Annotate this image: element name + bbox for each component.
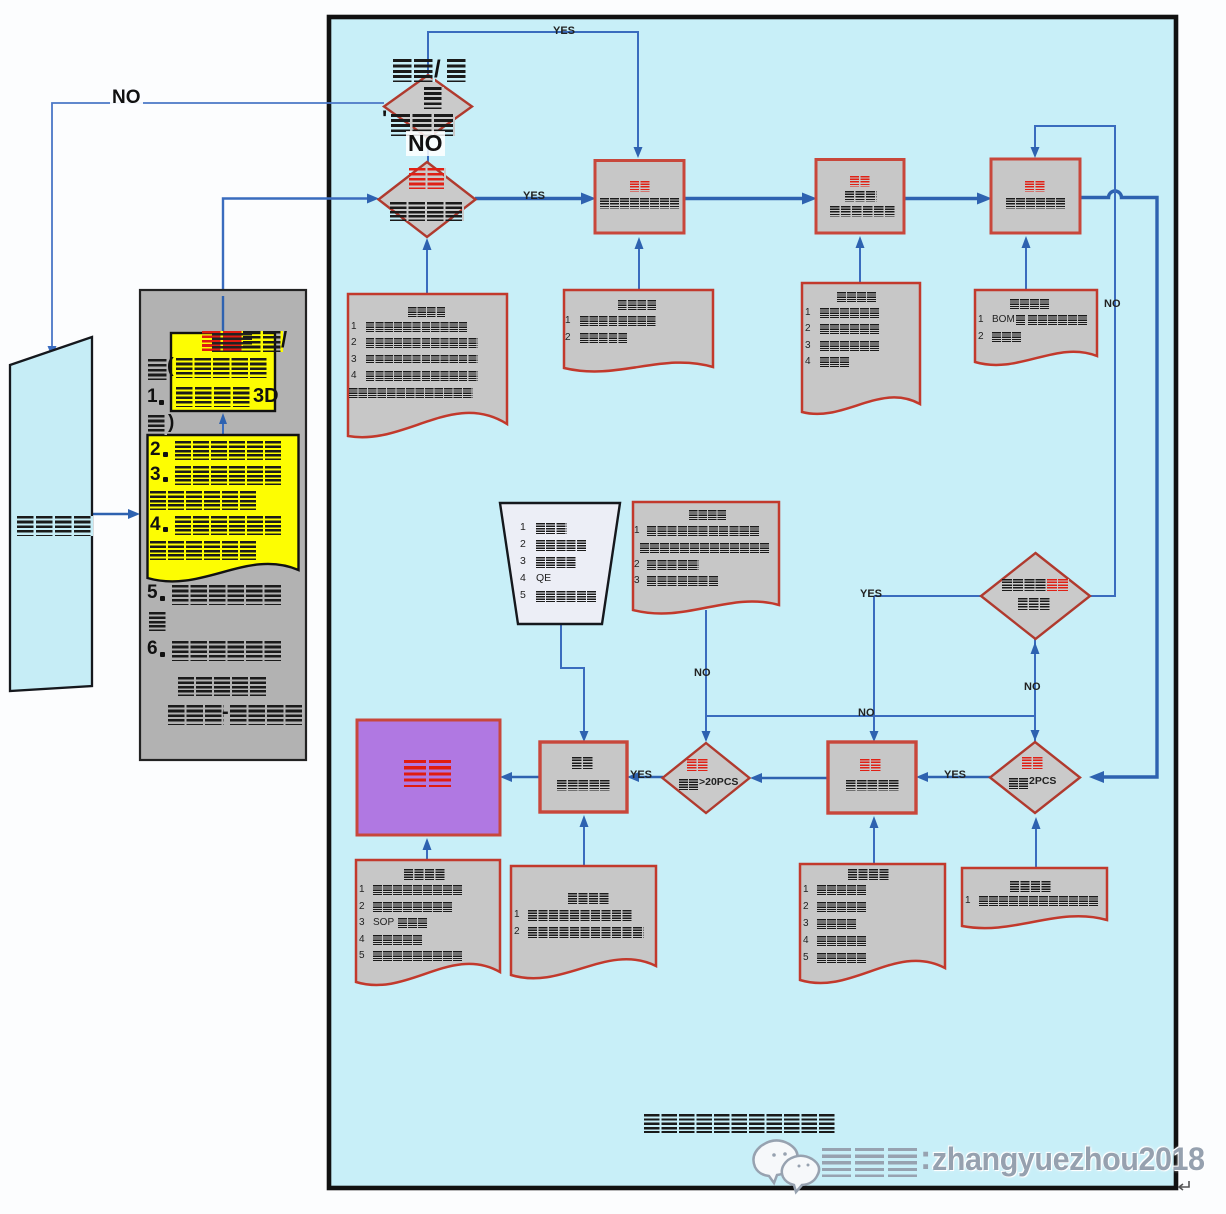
document querenshixiang xyxy=(348,294,507,437)
shape yellow document xyxy=(148,435,299,581)
label shichanfabuhui xyxy=(846,780,900,791)
big cyan frame box xyxy=(329,17,1176,1188)
label shichanzongjiehui xyxy=(557,780,611,791)
process shichanqian gongyi wenjian zhunbei xyxy=(816,160,904,234)
label xinchanpin gongyi taolunhui xyxy=(600,198,680,209)
wire jiantaohui2 YES horizontal xyxy=(874,595,981,597)
doc jiantaoshixiang item1 xyxy=(565,315,571,326)
doc zhunbeishixiang item1 xyxy=(978,314,984,325)
wire loop jiantaohui2 right up to wuliaozhunbei xyxy=(1035,126,1115,596)
panel text hui xyxy=(148,359,169,380)
document wenjianzhunbei middle xyxy=(633,502,779,614)
panel text shu xyxy=(149,612,167,631)
shape gongchengzhongxin trapezoid xyxy=(10,337,92,691)
label gongyiwenjianzhunbei xyxy=(830,206,896,217)
panel text gongcheng-gongchang jiekou xyxy=(168,705,224,725)
wire trapezoid to zongjiehui xyxy=(561,624,584,739)
document huiyishixiang xyxy=(511,866,656,978)
label YES left of jiantaohui2 xyxy=(860,588,882,600)
shape gray panel gongcheng-gongchang jiekou xyxy=(140,290,306,760)
yellow doc line3 bupintu xyxy=(150,465,161,486)
doc wenjianzhunbei2 title xyxy=(1010,881,1052,892)
panel text jiantaoshixiang red line xyxy=(202,331,244,352)
shape inverted trapezoid participants xyxy=(500,503,620,624)
label YES 20PCS to zongjiehui xyxy=(630,769,652,781)
label jiantaohui2 xyxy=(1018,598,1051,610)
panel text xinchanpinfabu xyxy=(176,358,268,378)
caption binhaichangqu title xyxy=(644,1114,836,1133)
label yangjiqueren xyxy=(390,202,464,221)
doc shichanzhunbei item5 xyxy=(803,952,809,963)
wire wuliaozhunbei right and down to shizuo 2PCS xyxy=(1080,191,1157,777)
doc wenjianmulu item3 xyxy=(805,340,811,351)
label shengji red taolunhui xyxy=(630,181,651,192)
wire taolunhui to gongyiwenjianzhunbei xyxy=(684,197,807,200)
doc wenjianzhunbei2 item1 xyxy=(965,895,971,906)
wire jiantao doc up to taolunhui xyxy=(638,248,640,290)
decision diamond gongcheng/shengji jiantaohui xyxy=(384,75,472,138)
wire ziliao doc up to liangchan xyxy=(426,850,428,860)
wire bus horizontal xyxy=(706,715,1035,717)
panel text 6 teshugongyiyaoqiu xyxy=(147,639,158,660)
process shengguan shichan fabuhui xyxy=(828,742,916,813)
doc shichanzhunbei item3 xyxy=(803,918,809,929)
wire jiantaohui2 YES down to fabuhui xyxy=(873,596,875,739)
wire wenjianzhunbei to wuliao zhunbei xyxy=(904,197,982,200)
process shengguan shichan wuliao zhunbei xyxy=(991,159,1080,233)
doc querenshixiang item4 xyxy=(351,370,357,381)
label diamond1 jiantaohui xyxy=(382,107,387,131)
process shengji shichan zongjiehui xyxy=(540,742,627,812)
panel text xinchanpindaoru xyxy=(178,677,268,696)
wire zhunbeishixiang doc up to wuliaozhunbei xyxy=(1025,247,1027,290)
label YES after yangjiqueren xyxy=(523,190,545,202)
watermark weixinhao xyxy=(822,1148,921,1177)
doc querenshixiang item2 xyxy=(351,337,357,348)
doc zhunbeishixiang item2 xyxy=(978,331,984,342)
document wenjianzhunbei bottom right xyxy=(962,868,1107,928)
doc wenjianzhunbei-mid item1 xyxy=(634,525,640,536)
doc ziliaozhunbei item5 xyxy=(359,950,365,961)
doc querenshixiang item3 xyxy=(351,354,357,365)
label chejian red xyxy=(687,759,709,771)
label NO on right loop xyxy=(1104,298,1121,310)
label NO below diamond1 xyxy=(406,131,445,156)
yellow doc line4 yangpin xyxy=(150,515,161,536)
wire shizuo2PCS up to jiantaohui2 xyxy=(1034,639,1036,742)
yellow doc line4b xyxy=(150,541,258,560)
label liangchan red xyxy=(404,760,454,787)
watermark wechat icon xyxy=(753,1140,819,1192)
doc wenjianzhunbei-mid title xyxy=(689,510,727,520)
document wenjianmulu xyxy=(802,283,920,414)
wire queren doc up to yangjiqueren diamond xyxy=(426,249,428,294)
label shichanqian xyxy=(845,191,877,202)
doc wenjianmulu title xyxy=(837,292,877,302)
label diamond1 gongcheng/sheng xyxy=(393,59,435,82)
document ziliaozhunbei xyxy=(356,860,500,985)
doc ziliaozhunbei item4 xyxy=(359,934,365,945)
panel text 1. xyxy=(147,387,158,408)
doc ziliaozhunbei item3 xyxy=(359,917,365,928)
doc querenshixiang item4b xyxy=(349,388,473,398)
doc ziliaozhunbei title xyxy=(404,869,446,880)
watermark zhangyuezhou2018 xyxy=(932,1142,1205,1177)
label gongchengzhongxin xyxy=(17,516,93,536)
trapezoid item2 xyxy=(520,539,526,551)
decision diamond shengji yangji queren xyxy=(379,162,476,237)
doc querenshixiang item1 xyxy=(351,321,357,332)
label shengji red shizuo xyxy=(1022,757,1044,769)
shape yellow note box xyxy=(171,333,275,411)
wire gongchengzhongxin to gray panel xyxy=(93,513,131,516)
doc shichanzhunbei item2 xyxy=(803,901,809,912)
panel text 5 chengpinjianyan xyxy=(147,583,158,604)
label shichan>20PCS xyxy=(679,779,699,790)
decision diamond gongcheng pinguan shengji jiantaohui xyxy=(981,553,1090,639)
doc wenjianzhunbei-mid item3 xyxy=(634,575,640,586)
wire shichanzhunbei doc up to fabuhui xyxy=(873,827,875,864)
doc wenjianzhunbei-mid item2 xyxy=(634,559,640,570)
panel text tu) xyxy=(148,415,167,435)
wire yangjiqueren NO up to jiantaohui diamond xyxy=(427,138,429,162)
process xinchanpin gongyi taolunhui xyxy=(595,161,684,234)
label YES shizuo to fabuhui xyxy=(944,769,966,781)
trapezoid item1 xyxy=(520,522,526,534)
wire wenjianzhunbei-mid doc down to shichan 20PCS xyxy=(705,610,707,740)
label shengji red on yangjiqueren xyxy=(409,168,446,189)
label diamond1 ji xyxy=(424,87,444,109)
panel text chengpin zuzhuang 3D xyxy=(176,387,252,407)
label NO top-left xyxy=(110,88,143,109)
wire shichan20PCS YES to zongjiehui xyxy=(636,776,663,779)
label shichanwuliaozhunbei xyxy=(1006,198,1066,209)
label NO below jiantaohui2 xyxy=(1024,681,1041,693)
decision diamond shengji shizuo 2PCS xyxy=(990,742,1080,813)
wire yellow doc up to yellow box xyxy=(222,424,224,435)
wire shizuo2PCS YES to fabuhui xyxy=(925,776,990,779)
decision diamond chejian shichan 20PCS xyxy=(663,743,750,813)
label gongchengpinguan shengji xyxy=(1002,579,1047,591)
label shengji red wenjianzhunbei xyxy=(850,176,871,187)
wire fabuhui to shichan20PCS xyxy=(759,777,828,780)
wire wenjianzhunbei2 doc up to shizuo2PCS xyxy=(1035,828,1037,868)
label NO at bus junction xyxy=(858,707,875,719)
trapezoid item5 xyxy=(520,590,526,602)
wire NO from jiantaohui diamond to gongchengzhongxin xyxy=(52,103,384,349)
wire YES loop from jiantaohui to gongyi taolunhui xyxy=(428,32,638,149)
label shengguan red fabuhui xyxy=(860,759,882,771)
document zhunbeishixiang xyxy=(975,290,1097,365)
doc querenshixiang title xyxy=(408,307,446,317)
return mark bottom right xyxy=(1179,1181,1189,1190)
wire yangjiqueren YES to taolunhui xyxy=(475,197,586,200)
doc ziliaozhunbei item1 xyxy=(359,884,365,895)
wire zongjiehui to liangchan xyxy=(509,776,540,779)
wire inside panel to yellow box xyxy=(222,296,224,333)
doc wenjianmulu item2 xyxy=(805,323,811,334)
label shengguan red wuliao xyxy=(1025,181,1046,192)
doc huiyishixiang item2 xyxy=(514,926,520,937)
terminator liangchan box xyxy=(357,720,500,835)
doc huiyishixiang item1 xyxy=(514,909,520,920)
yellow doc line2 dianluyuanlitu xyxy=(150,440,161,461)
trapezoid item4 xyxy=(520,573,526,585)
yellow doc line3b xyxy=(150,491,258,510)
trapezoid item3 xyxy=(520,556,526,568)
doc jiantaoshixiang item2 xyxy=(565,332,571,343)
label NO on doc-to-20PCS wire xyxy=(694,667,711,679)
wire panel up to yangji queren diamond xyxy=(223,199,369,334)
doc wenjianzhunbei-mid item1b xyxy=(640,543,770,553)
wire huiyishixiang doc up to zongjiehui xyxy=(583,826,585,866)
doc shichanzhunbei item4 xyxy=(803,935,809,946)
doc shichanzhunbei item1 xyxy=(803,884,809,895)
doc ziliaozhunbei item2 xyxy=(359,901,365,912)
doc zhunbeishixiang title xyxy=(1010,299,1050,309)
doc shichanzhunbei title xyxy=(848,869,890,880)
doc wenjianmulu item1 xyxy=(805,307,811,318)
document shichanzhunbei xyxy=(800,864,945,983)
label shizuo2PCS xyxy=(1009,778,1029,789)
doc huiyishixiang title xyxy=(568,893,610,904)
label YES top loop xyxy=(553,25,575,37)
label shengji zongjiehui xyxy=(572,757,594,769)
doc wenjianmulu item4 xyxy=(805,356,811,367)
doc jiantaoshixiang title xyxy=(618,300,657,310)
wire wenjianmulu doc up to gongyiwenjianzhunbei xyxy=(859,247,861,283)
document jiantaoshixiang xyxy=(564,290,713,371)
